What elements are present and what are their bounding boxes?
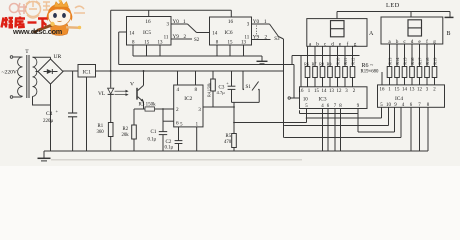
- svg-text:B: B: [447, 31, 451, 37]
- resistor R4 150k: [212, 71, 214, 79]
- wire emitter node line: [134, 108, 174, 110]
- svg-text:13: 13: [241, 41, 247, 46]
- wire bridge bottom to ground bus: [50, 84, 52, 151]
- wire net N3 to IC4 pin10: [285, 125, 389, 127]
- svg-text:14: 14: [212, 32, 218, 37]
- svg-text:R13: R13: [387, 58, 392, 65]
- ground symbol main: [43, 151, 45, 158]
- svg-text:16: 16: [380, 87, 385, 92]
- wire resistor R8 to IC3: [322, 78, 324, 87]
- wire IC2 pin8 to rail: [195, 71, 197, 85]
- switch S1: [242, 71, 244, 89]
- wire resistor R9 to IC3: [329, 78, 331, 87]
- svg-text:R11: R11: [343, 58, 348, 65]
- svg-text:3: 3: [198, 107, 201, 113]
- wire resistor R6 to IC3: [307, 78, 309, 87]
- display A digit: [331, 21, 345, 37]
- wire net N1 to IC3 pin9: [299, 110, 301, 113]
- display B: [381, 17, 443, 44]
- svg-text:12: 12: [337, 89, 342, 94]
- label R6~R19 value: [360, 56, 386, 73]
- wire resistor R19 to IC4: [434, 78, 436, 85]
- svg-text:d: d: [331, 41, 334, 47]
- wire segment b display B: [396, 44, 398, 67]
- resistor R9: [328, 67, 333, 78]
- svg-text:8: 8: [195, 87, 198, 93]
- svg-text:R2: R2: [123, 127, 129, 132]
- svg-text:R15: R15: [402, 58, 407, 65]
- svg-text:b: b: [316, 41, 319, 47]
- wire IC5 pin16 stub: [148, 10, 150, 17]
- wire net reset left: [234, 122, 307, 124]
- wire resistor R10 to IC3: [337, 78, 339, 87]
- counter IC6: [210, 17, 252, 45]
- svg-text:R7: R7: [312, 61, 317, 66]
- resistor R1 360: [108, 123, 113, 137]
- wire IC2 pin6 link: [163, 120, 174, 122]
- wire IC2 pin4 to rail: [177, 71, 179, 85]
- resistor R12: [350, 67, 355, 78]
- wire segment e display B: [419, 44, 421, 67]
- resistor R16: [410, 67, 415, 78]
- capacitor C4 220u: [72, 71, 74, 113]
- resistor R13: [387, 67, 392, 78]
- svg-text:R4 150k: R4 150k: [207, 82, 212, 97]
- wire resistor R15 to IC4: [404, 78, 406, 85]
- timer IC2: [174, 85, 203, 127]
- wire segment c display B: [404, 44, 406, 67]
- wire resistor R17 to IC4: [419, 78, 421, 85]
- wire segment e display A: [337, 46, 339, 66]
- wire segment c display A: [322, 46, 324, 66]
- svg-text:6: 6: [176, 121, 179, 127]
- wire IC6 pin16 stub: [230, 10, 232, 17]
- svg-text:IC2: IC2: [184, 96, 192, 102]
- terminal mains lower: [10, 96, 13, 99]
- wire resistor R13 to IC4: [389, 78, 391, 85]
- svg-text:15: 15: [228, 41, 234, 46]
- transformer T secondary winding: [33, 57, 37, 96]
- wire IC3 pin4 ground drop: [322, 109, 324, 152]
- wire +5V rail: [96, 70, 284, 72]
- svg-text:UR: UR: [54, 54, 62, 60]
- transformer T core: [26, 55, 28, 98]
- wire net IC3 pin9 to IC4 pin9: [357, 114, 359, 133]
- regulator IC1: [78, 65, 96, 78]
- svg-text:VL: VL: [98, 91, 105, 97]
- wire segment a display B: [389, 44, 391, 67]
- wire IC6 ground pins: [216, 45, 218, 56]
- resistor R18: [425, 67, 430, 78]
- wire main ground bus: [44, 150, 428, 152]
- wire +5V top bus: [111, 9, 232, 11]
- watermark red logo text 维库一下: [2, 17, 48, 29]
- wire IC4 pin6 ground drop: [410, 107, 412, 151]
- svg-text:R1: R1: [98, 124, 104, 129]
- wire clock line: [119, 64, 294, 66]
- wire IC4 pin7 ground drop: [419, 107, 421, 151]
- resistor R3 150k: [145, 107, 155, 111]
- wire IC5 ground pins: [132, 45, 134, 56]
- wire display A anode drop: [336, 12, 338, 19]
- svg-text:T: T: [25, 49, 29, 55]
- wire resistor R12 to IC3: [352, 78, 354, 87]
- wire IC2 pin1 ground: [196, 127, 198, 151]
- wire display B anode drop: [410, 12, 412, 18]
- terminal mains upper: [10, 56, 13, 59]
- svg-text:R18: R18: [425, 58, 430, 65]
- resistor R11: [343, 67, 348, 78]
- svg-text:A: A: [369, 31, 374, 37]
- wire secondary top to bridge: [33, 56, 51, 58]
- phototransistor V: [136, 88, 138, 100]
- svg-text:13: 13: [410, 87, 415, 92]
- wire segment b display A: [314, 46, 316, 66]
- svg-text:R14: R14: [395, 57, 400, 65]
- display B digit: [408, 20, 422, 36]
- wire LED bus: [337, 11, 450, 13]
- capacitor C2 0.1u: [178, 127, 180, 141]
- svg-text:R12: R12: [350, 58, 355, 65]
- wire IC2 pin3 output: [203, 106, 234, 108]
- svg-text:R6 ~: R6 ~: [362, 63, 375, 69]
- svg-text:LED: LED: [386, 2, 400, 9]
- svg-text:13: 13: [329, 89, 334, 94]
- svg-text:R10: R10: [335, 58, 340, 65]
- watermark faint background art: [26, 1, 86, 18]
- wire resistor R11 to IC3: [344, 78, 346, 87]
- LED VL: [110, 71, 112, 88]
- watermark mascot: [32, 0, 82, 35]
- wire segment g display A: [352, 46, 354, 66]
- capacitor C3 4.7u: [231, 71, 233, 86]
- svg-text:360: 360: [97, 130, 105, 135]
- wire IC3 pin7 ground drop: [334, 109, 336, 152]
- svg-text:2: 2: [176, 107, 179, 113]
- svg-text:10: 10: [303, 98, 308, 103]
- wire resistor R14 to IC4: [396, 78, 398, 85]
- wire IC3 pin5 drop: [306, 109, 308, 123]
- counter IC5: [127, 17, 172, 46]
- junction collector on +5V rail: [143, 70, 145, 72]
- svg-text:IC5: IC5: [143, 30, 151, 36]
- svg-text:12: 12: [417, 87, 422, 92]
- wire S3 common down: [279, 37, 284, 40]
- svg-text:IC1: IC1: [83, 70, 92, 76]
- svg-text:4.7μ: 4.7μ: [217, 90, 226, 95]
- wire down to IC3 pin10: [293, 65, 295, 99]
- capacitor C1 0.1u: [162, 109, 164, 132]
- wire IC5 pin14 lead: [119, 31, 127, 33]
- svg-text:R16: R16: [410, 57, 415, 65]
- wire net carry IC3 pin5 to IC4 pin5: [307, 117, 382, 119]
- svg-text:20k: 20k: [122, 133, 130, 138]
- wire net S3 to IC4 pin4: [285, 137, 402, 139]
- junction +5V at x110.7: [110, 70, 112, 72]
- wire IC1 ground lead: [86, 77, 88, 152]
- wire resistor R7 to IC3: [314, 78, 316, 87]
- svg-text:S3: S3: [274, 37, 280, 42]
- infrared arrows: [115, 90, 126, 92]
- wire segment f display A: [344, 46, 346, 66]
- svg-text:IC4: IC4: [395, 96, 403, 102]
- wire lower trace: [51, 159, 302, 161]
- resistor R10: [335, 67, 340, 78]
- svg-text:16: 16: [299, 89, 304, 94]
- wire segment f display B: [426, 44, 428, 67]
- svg-text:0.1μ: 0.1μ: [165, 145, 174, 150]
- svg-text:470: 470: [224, 140, 232, 145]
- svg-text:+: +: [56, 108, 59, 113]
- svg-text:R8: R8: [319, 61, 324, 66]
- svg-text:R9: R9: [327, 61, 332, 66]
- svg-text:S1: S1: [246, 85, 252, 90]
- svg-text:R3 150k: R3 150k: [139, 102, 157, 107]
- resistor R6: [305, 67, 310, 78]
- wire IC4 pin16 stub: [381, 72, 383, 85]
- decoder IC3: [300, 87, 368, 109]
- display A: [307, 19, 367, 47]
- svg-text:0.1μ: 0.1μ: [148, 138, 157, 143]
- wire reset node: [232, 101, 260, 103]
- svg-text:www.dzsc.com: www.dzsc.com: [12, 27, 63, 36]
- resistor R14: [395, 67, 400, 78]
- ground symbol top: [261, 56, 263, 61]
- svg-text:f: f: [347, 40, 349, 47]
- wire segment g display B: [434, 44, 436, 67]
- resistor R2 20k: [133, 109, 135, 125]
- svg-text:11: 11: [164, 36, 169, 41]
- wire left vertical from top bus to +5V rail: [110, 10, 112, 71]
- svg-text:R5: R5: [226, 134, 232, 139]
- bridge rectifier UR: [38, 59, 63, 84]
- svg-text:S2: S2: [194, 38, 200, 43]
- wire bridge right vertex to IC1: [63, 70, 78, 72]
- wire resistor R18 to IC4: [426, 78, 428, 85]
- wire IC3 pin6 ground drop: [327, 109, 329, 152]
- svg-text:15: 15: [144, 41, 150, 46]
- wire clock corner to IC3 pin16: [291, 56, 293, 65]
- svg-text:16: 16: [228, 19, 234, 25]
- svg-text:IC6: IC6: [224, 30, 232, 36]
- wire segment d display B: [411, 44, 413, 67]
- svg-text:C1: C1: [151, 130, 157, 135]
- wire segment a display A: [307, 46, 309, 66]
- wire logic ground bus: [133, 55, 262, 57]
- svg-text:14: 14: [129, 32, 135, 37]
- svg-text:g: g: [354, 41, 357, 47]
- resistor R7: [313, 67, 318, 78]
- svg-text:IC3: IC3: [318, 96, 326, 102]
- wire bridge left vertex stub: [36, 71, 39, 73]
- svg-text:C4: C4: [46, 111, 53, 117]
- svg-text:~220V: ~220V: [2, 70, 17, 76]
- svg-text:13: 13: [158, 41, 164, 46]
- svg-text:V: V: [130, 81, 134, 87]
- resistor R5 470: [232, 134, 237, 148]
- decoder IC4: [378, 85, 445, 107]
- resistor R15: [402, 67, 407, 78]
- svg-text:R19×680: R19×680: [361, 70, 379, 75]
- svg-text:R6: R6: [304, 61, 309, 66]
- svg-text:14: 14: [322, 89, 327, 94]
- wire resistor R16 to IC4: [411, 78, 413, 85]
- svg-text:15: 15: [395, 87, 400, 92]
- wire LED bus end stub: [449, 12, 451, 17]
- terminal IC3 pin10: [288, 97, 290, 99]
- svg-text:R19: R19: [432, 58, 437, 65]
- resistor R19: [432, 67, 437, 78]
- resistor R8: [320, 67, 325, 78]
- wire S2 common to IC6 pin14: [197, 32, 210, 34]
- svg-text:220μ: 220μ: [43, 119, 54, 124]
- svg-text:14: 14: [402, 87, 407, 92]
- svg-text:R17: R17: [417, 57, 422, 65]
- transformer T primary winding: [21, 56, 23, 58]
- wire secondary bottom to bridge bottom: [33, 96, 51, 105]
- svg-text:4: 4: [177, 87, 180, 93]
- wire IC3 pin8 ground drop: [340, 109, 342, 152]
- resistor R17: [417, 67, 422, 78]
- svg-text:15: 15: [314, 89, 319, 94]
- wire segment d display A: [329, 46, 331, 66]
- svg-text:16: 16: [145, 19, 151, 25]
